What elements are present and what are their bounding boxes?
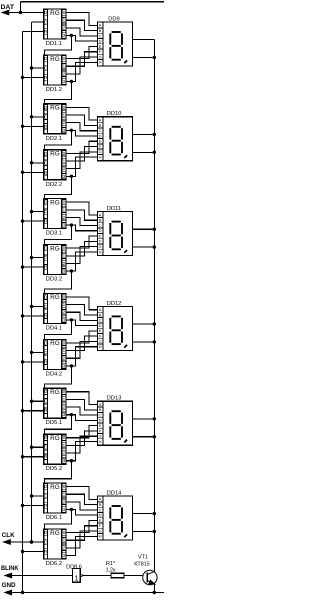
svg-text:RG: RG <box>50 199 60 206</box>
svg-text:B: B <box>99 28 102 33</box>
svg-text:RG: RG <box>50 56 60 63</box>
seven-segment digit of DD11 <box>110 222 127 253</box>
svg-text:B: B <box>99 502 102 507</box>
svg-text:DD6.2: DD6.2 <box>46 561 62 567</box>
wire output 1 of DD6.1 to segment pin B of DD14 <box>66 494 97 504</box>
7-segment indicator DD12 <box>97 301 132 351</box>
svg-text:R: R <box>44 503 47 508</box>
wire CLK bus to C input of DD4.1 <box>30 305 44 308</box>
svg-text:0: 0 <box>63 151 66 156</box>
svg-text:C: C <box>44 350 47 355</box>
svg-text:RG: RG <box>50 105 60 112</box>
wire DD8.6 output to R1 <box>82 575 111 577</box>
wire output 1 of DD5.2 to segment pin F of DD13 <box>66 431 97 446</box>
wire output 2 of DD3.1 to segment pin C of DD11 <box>66 217 97 225</box>
register DD3.1 <box>44 199 66 237</box>
svg-text:A: A <box>99 23 102 28</box>
wire output 2 of DD4.1 to segment pin C of DD12 <box>66 312 97 320</box>
wire ground bus to R input of DD3.2 <box>21 265 44 268</box>
svg-text:F: F <box>99 239 102 244</box>
wire output 3 of DD1.2 to segment pin H of DD9 <box>66 62 97 83</box>
svg-text:DD6.1: DD6.1 <box>46 515 62 521</box>
wire output 3 of DD1.1 to D input of DD1.2 <box>45 36 72 56</box>
svg-text:BLINK: BLINK <box>1 565 19 572</box>
svg-text:R: R <box>44 454 47 459</box>
svg-text:2: 2 <box>63 405 66 410</box>
node BLINK input <box>1 565 73 578</box>
svg-text:RG: RG <box>50 10 60 17</box>
wire common pin (bottom) of DD13 to right bus <box>132 435 156 438</box>
wire common pin (top) of DD9 to right bus <box>132 39 154 41</box>
wire CLK bus to C input of DD4.2 <box>30 351 44 354</box>
wire output 3 of DD2.1 to D input of DD2.2 <box>45 130 72 150</box>
wire ground bus to R input of DD5.2 <box>21 455 44 458</box>
svg-text:R: R <box>44 313 47 318</box>
wire common pin (bottom) of DD9 to right bus <box>132 56 156 59</box>
svg-text:1: 1 <box>63 207 66 212</box>
wire output 3 of DD5.2 to D input of DD6.1 <box>45 461 72 484</box>
svg-text:C: C <box>44 255 47 260</box>
wire output 3 of DD1.2 to D input of DD2.1 <box>45 82 72 105</box>
wire output 3 of DD6.2 to segment pin H of DD14 <box>66 536 97 555</box>
svg-text:D: D <box>99 39 102 44</box>
wire output 2 of DD1.1 to segment pin C of DD9 <box>66 28 97 36</box>
7-segment indicator DD10 <box>97 111 132 161</box>
wire output 1 of DD4.2 to segment pin F of DD12 <box>66 336 97 351</box>
wire CLK bus to C input of DD5.1 <box>30 400 44 403</box>
svg-text:DD1.1: DD1.1 <box>46 41 62 47</box>
register DD6.1 <box>44 483 66 521</box>
svg-text:RG: RG <box>50 294 60 301</box>
wire output 3 of DD5.1 to D input of DD5.2 <box>45 415 72 435</box>
svg-text:VT1: VT1 <box>138 554 148 560</box>
7-segment indicator DD9 <box>97 16 132 66</box>
wire ground bus to R input of DD2.2 <box>21 171 44 174</box>
svg-text:D: D <box>99 323 102 328</box>
svg-text:2: 2 <box>63 545 66 550</box>
wire output 0 of DD4.2 to segment pin E of DD12 <box>66 331 97 343</box>
wire output 1 of DD3.1 to segment pin B of DD11 <box>66 210 97 220</box>
wire output 3 of DD3.2 to segment pin H of DD11 <box>66 252 97 273</box>
svg-text:D: D <box>99 513 102 518</box>
svg-text:0: 0 <box>63 530 66 535</box>
svg-text:G: G <box>99 339 102 344</box>
svg-text:C: C <box>44 209 47 214</box>
svg-text:D: D <box>44 105 47 110</box>
svg-text:G: G <box>99 528 102 533</box>
wire output 2 of DD5.1 to segment pin C of DD13 <box>66 407 97 415</box>
svg-text:1: 1 <box>63 397 66 402</box>
wire output 3 of DD4.2 to D input of DD5.1 <box>45 366 72 389</box>
svg-text:3: 3 <box>63 412 66 417</box>
svg-text:2: 2 <box>63 166 66 171</box>
svg-text:1: 1 <box>63 302 66 307</box>
svg-text:R: R <box>44 408 47 413</box>
wire ground bus to R input of DD6.1 <box>21 504 44 507</box>
svg-text:B: B <box>99 218 102 223</box>
svg-text:1: 1 <box>75 573 79 582</box>
svg-text:D: D <box>44 484 47 489</box>
svg-text:D: D <box>99 418 102 423</box>
svg-text:DD4.2: DD4.2 <box>46 371 62 377</box>
svg-text:A: A <box>99 497 102 502</box>
svg-text:A: A <box>99 402 102 407</box>
seven-segment digit of DD12 <box>110 316 127 347</box>
seven-segment digit of DD10 <box>110 127 127 158</box>
svg-text:E: E <box>99 328 102 333</box>
svg-text:RG: RG <box>50 389 60 396</box>
svg-text:E: E <box>99 233 102 238</box>
node GND input <box>2 582 164 595</box>
svg-text:0: 0 <box>63 105 66 110</box>
svg-text:3: 3 <box>63 223 66 228</box>
svg-text:0: 0 <box>63 56 66 61</box>
wire ground bus to R input of DD5.1 <box>21 409 44 412</box>
svg-text:3: 3 <box>63 269 66 274</box>
wire common pin (bottom) of DD11 to right bus <box>132 245 156 248</box>
register DD5.2 <box>44 434 66 472</box>
wire common pin (top) of DD10 to right bus <box>132 133 156 136</box>
wire output 2 of DD6.1 to segment pin C of DD14 <box>66 502 97 510</box>
svg-text:D: D <box>44 200 47 205</box>
svg-text:E: E <box>99 518 102 523</box>
svg-text:1: 1 <box>63 492 66 497</box>
wire output 3 of DD2.2 to segment pin H of DD10 <box>66 157 97 178</box>
svg-text:C: C <box>44 540 47 545</box>
wire ground bus to R input of DD6.2 <box>21 550 44 553</box>
svg-text:C: C <box>44 114 47 119</box>
svg-text:F: F <box>99 523 102 528</box>
svg-text:D: D <box>44 151 47 156</box>
svg-text:E: E <box>99 44 102 49</box>
svg-text:0: 0 <box>63 340 66 345</box>
wire common pin (bottom) of DD10 to right bus <box>132 151 156 154</box>
wire output 1 of DD2.2 to segment pin F of DD10 <box>66 147 97 162</box>
svg-text:DD8.6: DD8.6 <box>66 564 82 570</box>
inverter DD8.6 <box>66 564 82 582</box>
wire CLK bus to C input of DD1.2 <box>30 66 44 69</box>
svg-text:C: C <box>44 20 47 25</box>
svg-text:0: 0 <box>63 200 66 205</box>
wire output 3 of DD4.2 to segment pin H of DD12 <box>66 347 97 368</box>
wire output 3 of DD2.1 to segment pin D of DD10 <box>66 129 97 136</box>
wire output 2 of DD2.2 to segment pin G of DD10 <box>66 152 97 169</box>
svg-text:3: 3 <box>63 174 66 179</box>
wire common pin (top) of DD14 to right bus <box>132 512 156 515</box>
wire common pin (bottom) of DD14 to right bus <box>132 530 156 533</box>
svg-text:F: F <box>99 334 102 339</box>
wire output 2 of DD1.2 to segment pin G of DD9 <box>66 57 97 74</box>
svg-text:2: 2 <box>63 499 66 504</box>
wire ground bus to R input of DD4.1 <box>21 314 44 317</box>
wire output 1 of DD5.1 to segment pin B of DD13 <box>66 399 97 409</box>
svg-text:D: D <box>99 133 102 138</box>
wire output 3 of DD5.1 to segment pin D of DD13 <box>66 413 97 420</box>
wire CLK bus to C input of DD6.1 <box>30 494 44 497</box>
svg-text:R: R <box>44 265 47 270</box>
wire output 3 of DD5.2 to segment pin H of DD13 <box>66 442 97 463</box>
svg-text:RG: RG <box>50 151 60 158</box>
wire output 3 of DD1.1 to segment pin D of DD9 <box>66 34 97 41</box>
svg-text:RG: RG <box>50 484 60 491</box>
svg-text:RG: RG <box>50 435 60 442</box>
svg-text:H: H <box>99 439 102 444</box>
wire ground bus to R input of DD3.1 <box>21 219 44 222</box>
svg-text:D: D <box>99 228 102 233</box>
svg-text:1: 1 <box>63 443 66 448</box>
wire output 1 of DD6.2 to segment pin F of DD14 <box>66 526 97 541</box>
wire output 0 of DD1.2 to segment pin E of DD9 <box>66 46 97 58</box>
wire CLK bus to C input of DD3.1 <box>30 210 44 213</box>
svg-text:1: 1 <box>63 64 66 69</box>
wire VT1 collector to display bus <box>153 571 155 573</box>
svg-text:CLK: CLK <box>2 532 15 539</box>
wire output 0 of DD5.1 to segment pin A of DD13 <box>66 392 97 405</box>
svg-text:DD5.1: DD5.1 <box>46 420 62 426</box>
svg-text:R: R <box>44 75 47 80</box>
node DAT input <box>1 2 44 15</box>
svg-text:2: 2 <box>63 356 66 361</box>
svg-text:0: 0 <box>63 389 66 394</box>
svg-text:3: 3 <box>63 317 66 322</box>
wire output 3 of DD4.1 to segment pin D of DD12 <box>66 318 97 325</box>
wire ground bus to R input of DD1.2 <box>21 76 44 79</box>
svg-text:3: 3 <box>63 458 66 463</box>
wire ground bus to R input of DD1.1 <box>23 31 44 33</box>
svg-text:C: C <box>44 160 47 165</box>
svg-text:DD2.2: DD2.2 <box>46 182 62 188</box>
wire CLK bus to C input of DD1.1 <box>32 21 44 23</box>
svg-text:D: D <box>44 56 47 61</box>
svg-text:1: 1 <box>63 253 66 258</box>
svg-text:1: 1 <box>63 538 66 543</box>
wire output 0 of DD6.2 to segment pin E of DD14 <box>66 520 97 532</box>
wire CLK bus to C input of DD6.2 <box>30 540 44 543</box>
svg-text:G: G <box>99 149 102 154</box>
bus ground (to all R inputs) <box>22 32 24 593</box>
svg-text:F: F <box>99 428 102 433</box>
wire output 0 of DD3.2 to segment pin E of DD11 <box>66 236 97 248</box>
svg-text:DD1.2: DD1.2 <box>46 87 62 93</box>
svg-text:R: R <box>44 549 47 554</box>
seven-segment digit of DD14 <box>110 506 127 537</box>
svg-text:3: 3 <box>63 507 66 512</box>
svg-text:C: C <box>44 304 47 309</box>
svg-text:0: 0 <box>63 294 66 299</box>
svg-text:RG: RG <box>50 530 60 537</box>
seven-segment digit of DD9 <box>110 32 127 63</box>
wire CLK bus to C input of DD5.2 <box>30 446 44 449</box>
svg-text:1: 1 <box>63 159 66 164</box>
svg-text:DD5.2: DD5.2 <box>46 466 62 472</box>
svg-text:C: C <box>44 445 47 450</box>
svg-text:2: 2 <box>63 451 66 456</box>
wire output 0 of DD5.2 to segment pin E of DD13 <box>66 426 97 438</box>
wire output 3 of DD3.1 to segment pin D of DD11 <box>66 223 97 230</box>
svg-text:H: H <box>99 60 102 65</box>
svg-text:B: B <box>99 123 102 128</box>
svg-text:3: 3 <box>63 33 66 38</box>
svg-text:E: E <box>99 139 102 144</box>
wire output 1 of DD1.2 to segment pin F of DD9 <box>66 52 97 66</box>
bus display common cathode (right) <box>153 40 155 573</box>
7-segment indicator DD14 <box>97 490 132 540</box>
svg-text:D: D <box>44 10 47 15</box>
svg-text:1: 1 <box>63 18 66 23</box>
svg-text:0: 0 <box>63 484 66 489</box>
svg-text:3: 3 <box>63 553 66 558</box>
svg-text:B: B <box>99 312 102 317</box>
svg-text:DD2.1: DD2.1 <box>46 136 62 142</box>
wire common pin (top) of DD12 to right bus <box>132 322 156 325</box>
svg-text:3: 3 <box>63 128 66 133</box>
register DD2.2 <box>44 150 66 188</box>
svg-text:D: D <box>44 294 47 299</box>
svg-text:DD4.1: DD4.1 <box>46 325 62 331</box>
svg-text:H: H <box>99 155 102 160</box>
wire output 2 of DD2.1 to segment pin C of DD10 <box>66 123 97 131</box>
svg-text:E: E <box>99 423 102 428</box>
wire output 2 of DD5.2 to segment pin G of DD13 <box>66 436 97 453</box>
register DD1.1 <box>44 9 66 47</box>
svg-text:G: G <box>99 244 102 249</box>
wire CLK bus to C input of DD2.1 <box>30 115 44 118</box>
svg-text:D: D <box>44 340 47 345</box>
svg-text:R: R <box>44 124 47 129</box>
wire output 1 of DD2.1 to segment pin B of DD10 <box>66 115 97 125</box>
wire output 0 of DD1.1 to segment pin A of DD9 <box>66 13 97 26</box>
svg-text:H: H <box>99 534 102 539</box>
wire output 1 of DD1.1 to segment pin B of DD9 <box>66 20 97 30</box>
bus CLK (clock to all C inputs) <box>31 22 33 542</box>
node CLK input <box>2 532 44 544</box>
svg-text:1: 1 <box>63 113 66 118</box>
wire output 3 of DD3.1 to D input of DD3.2 <box>45 225 72 245</box>
register DD4.2 <box>44 339 66 377</box>
wire output 0 of DD6.1 to segment pin A of DD14 <box>66 487 97 500</box>
svg-text:2: 2 <box>63 25 66 30</box>
wire output 0 of DD3.1 to segment pin A of DD11 <box>66 202 97 215</box>
wire CLK bus to C input of DD3.2 <box>30 256 44 259</box>
wire output 2 of DD4.2 to segment pin G of DD12 <box>66 341 97 358</box>
svg-text:C: C <box>44 399 47 404</box>
svg-text:R: R <box>44 219 47 224</box>
wire output 3 of DD6.1 to D input of DD6.2 <box>45 510 72 530</box>
svg-text:3: 3 <box>63 79 66 84</box>
register DD2.1 <box>44 104 66 142</box>
svg-text:A: A <box>99 212 102 217</box>
svg-text:2: 2 <box>63 215 66 220</box>
svg-text:D: D <box>44 530 47 535</box>
svg-text:2: 2 <box>63 261 66 266</box>
svg-text:C: C <box>44 494 47 499</box>
svg-text:G: G <box>99 434 102 439</box>
wire output 3 of DD4.1 to D input of DD4.2 <box>45 320 72 340</box>
wire ground bus to R input of DD4.2 <box>21 360 44 363</box>
svg-text:R: R <box>44 29 47 34</box>
7-segment indicator DD11 <box>97 206 132 256</box>
wire output 3 of DD2.2 to D input of DD3.1 <box>45 176 72 199</box>
svg-text:A: A <box>99 307 102 312</box>
wire common pin (bottom) of DD12 to right bus <box>132 340 156 343</box>
wire output 3 of DD3.2 to D input of DD4.1 <box>45 271 72 294</box>
seven-segment digit of DD13 <box>110 411 127 442</box>
svg-text:D: D <box>44 246 47 251</box>
svg-text:2: 2 <box>63 71 66 76</box>
wire output 3 of DD6.1 to segment pin D of DD14 <box>66 508 97 515</box>
resistor R1 1.2k <box>106 561 124 578</box>
svg-text:0: 0 <box>63 435 66 440</box>
svg-text:F: F <box>99 144 102 149</box>
svg-text:F: F <box>99 49 102 54</box>
wire output 1 of DD4.1 to segment pin B of DD12 <box>66 305 97 315</box>
svg-text:H: H <box>99 249 102 254</box>
svg-text:0: 0 <box>63 246 66 251</box>
wire output 2 of DD3.2 to segment pin G of DD11 <box>66 247 97 264</box>
svg-text:A: A <box>99 118 102 123</box>
svg-text:КТ815: КТ815 <box>134 561 149 567</box>
wire ground bus to R input of DD2.1 <box>21 125 44 128</box>
svg-text:1: 1 <box>63 348 66 353</box>
svg-text:D: D <box>44 389 47 394</box>
register DD6.2 <box>44 529 66 567</box>
transistor VT1 KT815 <box>134 554 157 584</box>
wire VT1 emitter to GND rail <box>153 583 156 594</box>
svg-text:H: H <box>99 344 102 349</box>
svg-text:D: D <box>44 435 47 440</box>
wire CLK bus to C input of DD2.2 <box>30 161 44 164</box>
wire common pin (top) of DD11 to right bus <box>132 228 156 231</box>
svg-text:3: 3 <box>63 363 66 368</box>
svg-text:2: 2 <box>63 120 66 125</box>
wire R1 to VT1 base <box>124 575 143 577</box>
svg-text:RG: RG <box>50 340 60 347</box>
register DD1.2 <box>44 55 66 93</box>
svg-text:DD3.1: DD3.1 <box>46 231 62 237</box>
register DD3.2 <box>44 245 66 283</box>
svg-text:2: 2 <box>63 310 66 315</box>
wire output 0 of DD2.2 to segment pin E of DD10 <box>66 141 97 153</box>
register DD5.1 <box>44 388 66 426</box>
svg-text:DAT: DAT <box>1 4 14 11</box>
svg-text:R: R <box>44 359 47 364</box>
wire DAT serial feed-through to right edge <box>21 1 165 3</box>
svg-text:B: B <box>99 407 102 412</box>
svg-text:G: G <box>99 54 102 59</box>
register DD4.1 <box>44 293 66 331</box>
7-segment indicator DD13 <box>97 396 132 446</box>
wire output 0 of DD4.1 to segment pin A of DD12 <box>66 297 97 310</box>
svg-text:0: 0 <box>63 10 66 15</box>
svg-text:GND: GND <box>2 582 16 589</box>
svg-text:R1*: R1* <box>106 561 116 567</box>
wire common pin (top) of DD13 to right bus <box>132 417 156 420</box>
svg-text:C: C <box>44 66 47 71</box>
wire output 0 of DD2.1 to segment pin A of DD10 <box>66 107 97 120</box>
svg-text:RG: RG <box>50 245 60 252</box>
svg-text:R: R <box>44 170 47 175</box>
svg-text:DD3.2: DD3.2 <box>46 277 62 283</box>
wire output 2 of DD6.2 to segment pin G of DD14 <box>66 531 97 548</box>
wire output 1 of DD3.2 to segment pin F of DD11 <box>66 241 97 256</box>
